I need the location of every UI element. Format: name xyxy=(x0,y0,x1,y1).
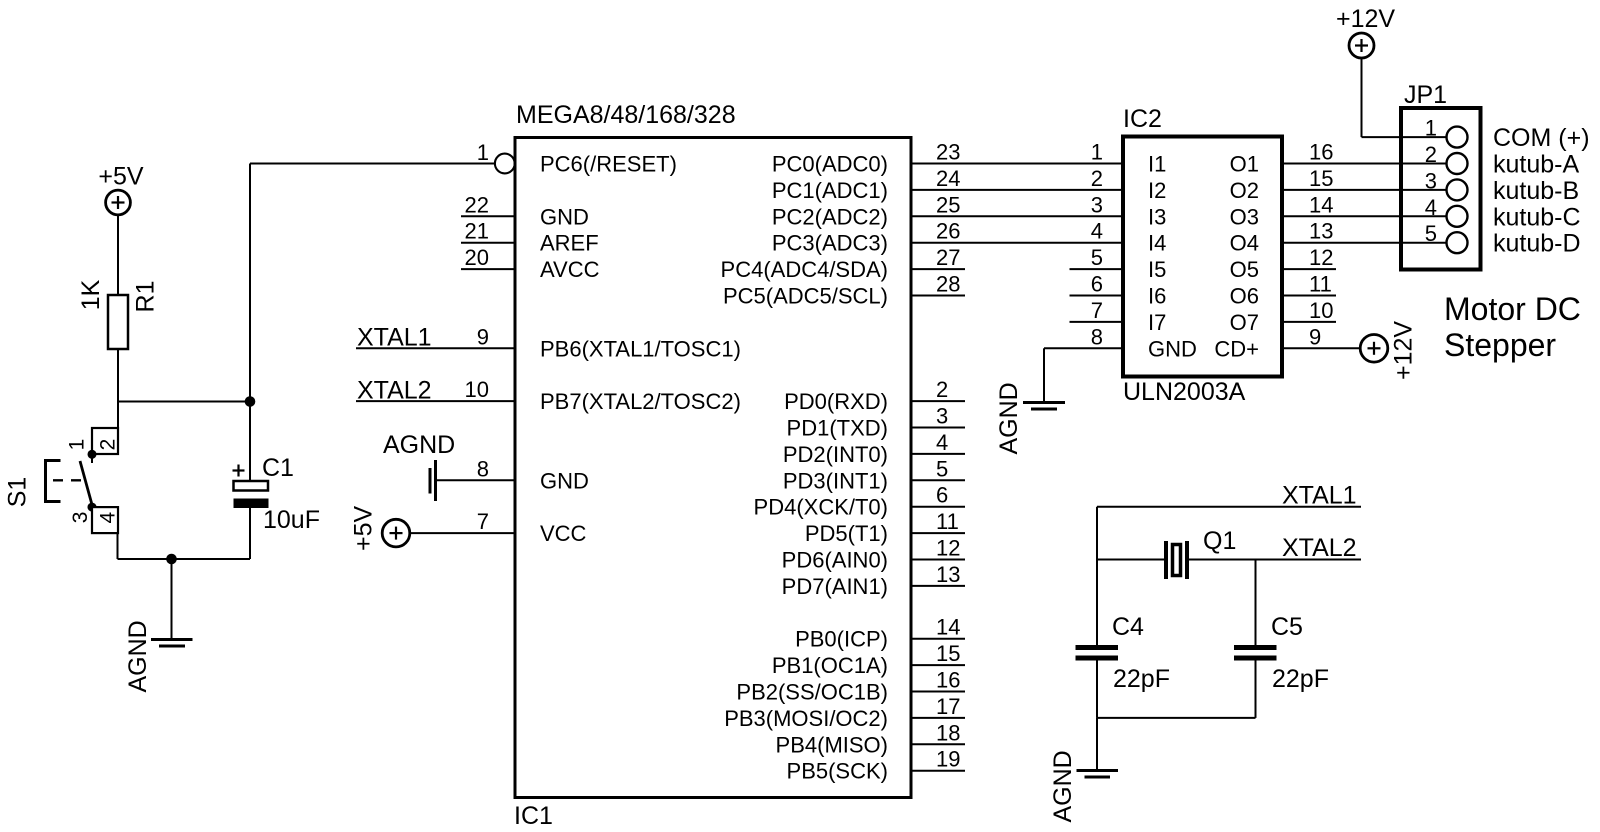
svg-text:6: 6 xyxy=(936,483,948,508)
IC1 pin 9 wire xyxy=(356,347,515,349)
switch S1 pad 2 xyxy=(92,428,118,454)
junction ground node xyxy=(166,554,177,565)
wire bottom S1 to C1 xyxy=(118,558,251,560)
IC2 pin 16 wire (O1) xyxy=(1282,163,1446,165)
svg-text:2: 2 xyxy=(936,377,948,402)
crystal Q1 xyxy=(1164,541,1168,579)
IC2 pin 9 wire (CD+) xyxy=(1282,347,1361,349)
wire crystal left xyxy=(1097,559,1166,561)
svg-text:O4: O4 xyxy=(1230,231,1259,256)
inverter bubble pin 1 PC6 xyxy=(495,154,515,174)
svg-text:Stepper: Stepper xyxy=(1444,327,1556,363)
svg-text:MEGA8/48/168/328: MEGA8/48/168/328 xyxy=(516,101,736,129)
svg-text:PD0(RXD): PD0(RXD) xyxy=(784,389,888,414)
svg-text:22pF: 22pF xyxy=(1272,665,1329,693)
svg-text:22: 22 xyxy=(465,192,489,217)
power +12V at CD+ xyxy=(1360,335,1388,363)
ground symbol at IC1 pin 8 (rotated) xyxy=(434,460,437,501)
IC1 pin 16 wire (PB2(SS/OC1B)) xyxy=(911,691,965,693)
svg-text:1K: 1K xyxy=(77,279,105,310)
switch S1 actuator bracket xyxy=(46,461,61,502)
IC1 pin 15 wire (PB1(OC1A)) xyxy=(911,664,965,666)
svg-text:AGND: AGND xyxy=(124,620,152,692)
svg-text:PB1(OC1A): PB1(OC1A) xyxy=(772,653,888,678)
svg-text:kutub-C: kutub-C xyxy=(1493,203,1581,231)
IC2 pin 13 wire (O4) xyxy=(1282,242,1446,244)
IC1 pin 22 wire xyxy=(461,215,515,217)
svg-text:13: 13 xyxy=(1309,219,1333,244)
svg-text:18: 18 xyxy=(936,720,960,745)
svg-text:4: 4 xyxy=(936,430,948,455)
wire to AGND xyxy=(171,559,173,639)
svg-text:11: 11 xyxy=(936,509,959,534)
JP1 pin 1 circle xyxy=(1447,127,1468,148)
IC1 pin 6 wire (PD4(XCK/T0)) xyxy=(911,506,965,508)
IC1 pin 4 wire (PD2(INT0)) xyxy=(911,453,965,455)
svg-text:2: 2 xyxy=(97,439,120,451)
IC1 pin 26 wire (PC3(ADC3)) xyxy=(911,242,1123,244)
IC1 pin 24 wire (PC1(ADC1)) xyxy=(911,189,1123,191)
svg-text:C5: C5 xyxy=(1271,613,1303,641)
svg-text:PD6(AIN0): PD6(AIN0) xyxy=(782,548,888,573)
svg-text:5: 5 xyxy=(1091,245,1103,270)
svg-text:IC1: IC1 xyxy=(514,802,553,830)
IC1 pin 19 wire (PB5(SCK)) xyxy=(911,770,965,772)
svg-text:12: 12 xyxy=(936,536,960,561)
svg-text:XTAL1: XTAL1 xyxy=(357,324,432,352)
svg-text:AGND: AGND xyxy=(995,382,1023,454)
svg-text:PD1(TXD): PD1(TXD) xyxy=(787,416,888,441)
svg-text:14: 14 xyxy=(936,615,960,640)
svg-text:O7: O7 xyxy=(1230,310,1259,335)
svg-text:3: 3 xyxy=(69,512,92,524)
svg-text:10: 10 xyxy=(465,377,489,402)
svg-text:PB6(XTAL1/TOSC1): PB6(XTAL1/TOSC1) xyxy=(540,336,741,361)
switch S1 contact dot 1 xyxy=(88,450,97,459)
svg-text:PD3(INT1): PD3(INT1) xyxy=(783,468,888,493)
IC1 pin 2 wire (PD0(RXD)) xyxy=(911,400,965,402)
svg-text:PB2(SS/OC1B): PB2(SS/OC1B) xyxy=(736,680,888,705)
IC1 pin 11 wire (PD5(T1)) xyxy=(911,532,965,534)
IC1 pin 28 wire (PC5(ADC5/SCL)) xyxy=(911,295,965,297)
wire node row to reset column xyxy=(118,401,250,403)
JP1 pin 3 circle xyxy=(1447,179,1468,200)
wire to switch S1 pin 2 xyxy=(117,402,119,429)
svg-text:Motor DC: Motor DC xyxy=(1444,291,1581,327)
svg-text:4: 4 xyxy=(1091,219,1103,244)
IC1 pin 18 wire (PB4(MISO)) xyxy=(911,743,965,745)
svg-text:I2: I2 xyxy=(1148,178,1166,203)
svg-text:I7: I7 xyxy=(1148,310,1166,335)
svg-text:kutub-A: kutub-A xyxy=(1493,151,1579,179)
svg-text:PC0(ADC0): PC0(ADC0) xyxy=(772,152,888,177)
wire reset to IC1 pin 1 xyxy=(250,163,496,165)
svg-text:20: 20 xyxy=(465,245,489,270)
svg-text:XTAL1: XTAL1 xyxy=(1282,482,1357,510)
IC2 pin 12 wire (O5) xyxy=(1282,268,1336,270)
svg-text:ULN2003A: ULN2003A xyxy=(1123,378,1246,406)
svg-text:3: 3 xyxy=(1425,168,1437,193)
svg-text:Q1: Q1 xyxy=(1203,527,1236,555)
svg-text:4: 4 xyxy=(1425,195,1437,220)
svg-text:1: 1 xyxy=(66,439,89,451)
svg-text:1: 1 xyxy=(1091,140,1103,165)
IC1 pin 23 wire (PC0(ADC0)) xyxy=(911,163,1123,165)
svg-text:PB0(ICP): PB0(ICP) xyxy=(795,627,888,652)
svg-text:24: 24 xyxy=(936,166,960,191)
svg-text:PD5(T1): PD5(T1) xyxy=(805,521,888,546)
svg-text:+12V: +12V xyxy=(1336,5,1395,33)
svg-text:14: 14 xyxy=(1309,192,1333,217)
svg-text:2: 2 xyxy=(1091,166,1103,191)
capacitor C1 plus mark xyxy=(233,469,245,471)
svg-text:10: 10 xyxy=(1309,298,1333,323)
svg-text:2: 2 xyxy=(1425,142,1437,167)
JP1 pin 5 circle xyxy=(1447,232,1468,253)
junction reset node xyxy=(245,396,256,407)
switch S1 pad 4 xyxy=(92,507,118,533)
IC1 box MEGA8/48/168/328 xyxy=(515,138,911,798)
svg-text:PB7(XTAL2/TOSC2): PB7(XTAL2/TOSC2) xyxy=(540,389,741,414)
IC2 pin 6 stub wire xyxy=(1070,295,1124,297)
wire C5 bottom xyxy=(1255,661,1257,718)
svg-text:PC5(ADC5/SCL): PC5(ADC5/SCL) xyxy=(723,284,888,309)
IC1 pin 12 wire (PD6(AIN0)) xyxy=(911,559,965,561)
svg-text:PD7(AIN1): PD7(AIN1) xyxy=(782,574,888,599)
svg-text:1: 1 xyxy=(1425,116,1437,141)
svg-text:3: 3 xyxy=(1091,192,1103,217)
svg-text:5: 5 xyxy=(936,456,948,481)
svg-text:kutub-D: kutub-D xyxy=(1493,230,1581,258)
capacitor C1 top plate xyxy=(234,481,269,491)
JP1 pin 4 circle xyxy=(1447,206,1468,227)
svg-text:R1: R1 xyxy=(132,281,160,313)
IC1 pin 14 wire (PB0(ICP)) xyxy=(911,638,965,640)
wire +12V down to JP1 pin 1 xyxy=(1361,59,1363,138)
wire XTAL1 net xyxy=(1097,506,1361,508)
svg-text:+5V: +5V xyxy=(98,163,144,191)
svg-text:XTAL2: XTAL2 xyxy=(357,377,432,405)
ground AGND at IC2 pin 8 xyxy=(1023,401,1065,404)
svg-text:3: 3 xyxy=(936,404,948,429)
svg-text:22pF: 22pF xyxy=(1113,665,1170,693)
wire reset column up xyxy=(249,164,251,402)
svg-text:4: 4 xyxy=(97,512,120,524)
svg-text:PD4(XCK/T0): PD4(XCK/T0) xyxy=(754,495,888,520)
svg-text:AGND: AGND xyxy=(383,431,455,459)
svg-text:O2: O2 xyxy=(1230,178,1259,203)
wire S1 pin 4 down xyxy=(117,533,119,559)
resistor R1 1K xyxy=(108,295,128,349)
wire C4 bottom xyxy=(1096,661,1098,718)
capacitor C1 bottom plate xyxy=(234,499,269,509)
svg-text:26: 26 xyxy=(936,219,960,244)
capacitor C5 xyxy=(1234,645,1277,650)
svg-text:9: 9 xyxy=(477,324,489,349)
svg-text:GND: GND xyxy=(540,468,589,493)
svg-text:8: 8 xyxy=(477,456,489,481)
svg-text:O1: O1 xyxy=(1230,152,1259,177)
IC2 box ULN2003A xyxy=(1123,137,1282,377)
svg-text:C1: C1 xyxy=(262,454,294,482)
IC1 pin 20 wire xyxy=(461,268,515,270)
switch S1 fixed contact stub xyxy=(91,454,93,463)
svg-text:O6: O6 xyxy=(1230,284,1259,309)
svg-text:GND: GND xyxy=(1148,336,1197,361)
svg-text:+5V: +5V xyxy=(350,505,378,551)
svg-text:19: 19 xyxy=(936,747,960,772)
wire R1 to node xyxy=(117,349,119,402)
svg-text:I1: I1 xyxy=(1148,152,1166,177)
IC2 pin 8 wire to ground xyxy=(1044,347,1123,349)
wire XTAL2 branch down xyxy=(1255,560,1257,646)
capacitor C1 10uF wire top xyxy=(249,402,251,482)
svg-text:COM (+): COM (+) xyxy=(1493,124,1590,152)
IC1 pin 7 wire xyxy=(409,532,515,534)
IC2 pin 11 wire (O6) xyxy=(1282,295,1336,297)
IC1 pin 8 wire xyxy=(436,479,515,481)
svg-text:I5: I5 xyxy=(1148,257,1166,282)
svg-text:8: 8 xyxy=(1091,324,1103,349)
svg-text:S1: S1 xyxy=(4,477,32,508)
svg-text:AGND: AGND xyxy=(1049,750,1077,822)
IC2 pin 7 stub wire xyxy=(1070,321,1124,323)
svg-text:JP1: JP1 xyxy=(1404,81,1447,109)
IC1 pin 25 wire (PC2(ADC2)) xyxy=(911,215,1123,217)
svg-text:O5: O5 xyxy=(1230,257,1259,282)
svg-text:PC6(/RESET): PC6(/RESET) xyxy=(540,152,677,177)
IC1 pin 21 wire xyxy=(461,242,515,244)
switch S1 actuator dashed link xyxy=(53,479,86,481)
IC2 pin 15 wire (O2) xyxy=(1282,189,1446,191)
svg-text:XTAL2: XTAL2 xyxy=(1282,534,1357,562)
wire crystal right to XTAL2 xyxy=(1187,559,1361,561)
svg-text:1: 1 xyxy=(477,140,489,165)
svg-text:PD2(INT0): PD2(INT0) xyxy=(783,442,888,467)
svg-text:PC2(ADC2): PC2(ADC2) xyxy=(772,204,888,229)
svg-text:PB3(MOSI/OC2): PB3(MOSI/OC2) xyxy=(724,706,888,731)
IC1 pin 17 wire (PB3(MOSI/OC2)) xyxy=(911,717,965,719)
svg-text:27: 27 xyxy=(936,245,960,270)
svg-text:AVCC: AVCC xyxy=(540,257,600,282)
svg-text:23: 23 xyxy=(936,140,960,165)
svg-text:VCC: VCC xyxy=(540,521,587,546)
capacitor C4 xyxy=(1076,645,1119,650)
svg-text:kutub-B: kutub-B xyxy=(1493,177,1579,205)
svg-text:C4: C4 xyxy=(1112,613,1144,641)
svg-text:11: 11 xyxy=(1309,272,1332,297)
svg-text:PB4(MISO): PB4(MISO) xyxy=(776,732,888,757)
IC1 pin 5 wire (PD3(INT1)) xyxy=(911,479,965,481)
power +5V at IC1 pin 7 xyxy=(382,519,410,547)
wire +5V to R1 xyxy=(117,216,119,296)
svg-text:13: 13 xyxy=(936,562,960,587)
svg-text:I3: I3 xyxy=(1148,204,1166,229)
ground AGND (bottom left) xyxy=(151,638,193,641)
IC1 pin 3 wire (PD1(TXD)) xyxy=(911,427,965,429)
svg-text:7: 7 xyxy=(1091,298,1103,323)
svg-text:9: 9 xyxy=(1309,324,1321,349)
switch S1 lever xyxy=(80,461,93,507)
svg-text:PC4(ADC4/SDA): PC4(ADC4/SDA) xyxy=(721,257,888,282)
IC1 pin 13 wire (PD7(AIN1)) xyxy=(911,585,965,587)
svg-text:O3: O3 xyxy=(1230,204,1259,229)
svg-text:I4: I4 xyxy=(1148,231,1166,256)
svg-text:I6: I6 xyxy=(1148,284,1166,309)
IC2 pin 5 stub wire xyxy=(1070,268,1124,270)
svg-text:AREF: AREF xyxy=(540,231,599,256)
wire bottom rail xyxy=(1097,717,1256,719)
JP1 box connector xyxy=(1401,108,1481,270)
svg-text:PC1(ADC1): PC1(ADC1) xyxy=(772,178,888,203)
svg-text:12: 12 xyxy=(1309,245,1333,270)
svg-text:15: 15 xyxy=(936,641,960,666)
wire rail to AGND xyxy=(1096,718,1098,770)
svg-text:PC3(ADC3): PC3(ADC3) xyxy=(772,231,888,256)
ground AGND (crystal) xyxy=(1077,769,1119,772)
IC2 pin 14 wire (O3) xyxy=(1282,215,1446,217)
svg-text:25: 25 xyxy=(936,192,960,217)
svg-text:21: 21 xyxy=(465,219,489,244)
svg-text:+12V: +12V xyxy=(1390,321,1418,380)
svg-text:10uF: 10uF xyxy=(263,506,320,534)
svg-text:15: 15 xyxy=(1309,166,1333,191)
wire C1 bottom xyxy=(249,508,251,559)
svg-text:CD+: CD+ xyxy=(1214,336,1259,361)
IC2 pin 10 wire (O7) xyxy=(1282,321,1336,323)
svg-text:16: 16 xyxy=(936,668,960,693)
svg-text:GND: GND xyxy=(540,204,589,229)
svg-text:28: 28 xyxy=(936,272,960,297)
svg-text:16: 16 xyxy=(1309,140,1333,165)
svg-text:PB5(SCK): PB5(SCK) xyxy=(787,759,888,784)
wire XTAL1 branch down xyxy=(1096,507,1098,645)
switch S1 contact dot 3 xyxy=(88,503,97,512)
JP1 pin 2 circle xyxy=(1447,153,1468,174)
IC1 pin 10 wire xyxy=(356,400,515,402)
IC1 pin 27 wire (PC4(ADC4/SDA)) xyxy=(911,268,965,270)
svg-text:6: 6 xyxy=(1091,272,1103,297)
svg-text:7: 7 xyxy=(477,509,489,534)
svg-text:IC2: IC2 xyxy=(1123,105,1162,133)
svg-text:17: 17 xyxy=(936,694,960,719)
svg-text:5: 5 xyxy=(1425,221,1437,246)
